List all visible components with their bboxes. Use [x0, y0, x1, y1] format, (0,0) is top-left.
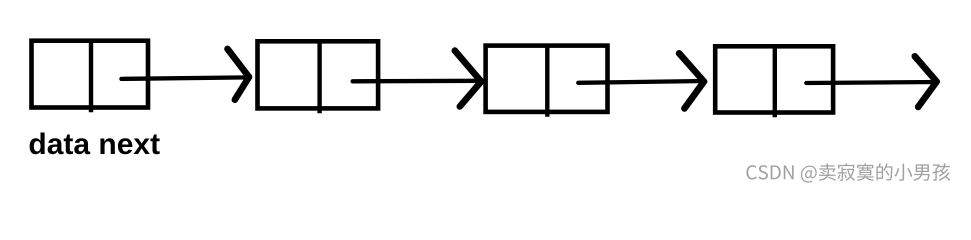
arrow 2 shaft (next pointer wire)	[353, 79, 482, 84]
node 1 divider (data|next)	[89, 39, 93, 112]
arrow 4 head	[915, 56, 937, 107]
arrow 2 head	[455, 51, 481, 107]
label "data next"	[28, 128, 160, 161]
node 3 divider (data|next)	[545, 44, 549, 116]
node 2 box	[258, 41, 379, 108]
node 4 divider (data|next)	[773, 45, 777, 117]
node 2 divider (data|next)	[317, 40, 321, 113]
svg-text:data next: data next	[28, 128, 160, 161]
node 4 box	[715, 46, 833, 112]
node 1 box	[32, 41, 149, 108]
arrow 3 head	[679, 53, 704, 108]
arrow 3 shaft (next pointer wire)	[578, 81, 704, 83]
arrow 4 shaft (next pointer wire)	[806, 82, 936, 83]
watermark CSDN @卖寂寞的小男孩	[746, 163, 951, 184]
arrow 1 shaft (next pointer wire)	[121, 77, 249, 79]
arrow 1 head	[228, 49, 250, 100]
node 3 box	[486, 46, 608, 112]
